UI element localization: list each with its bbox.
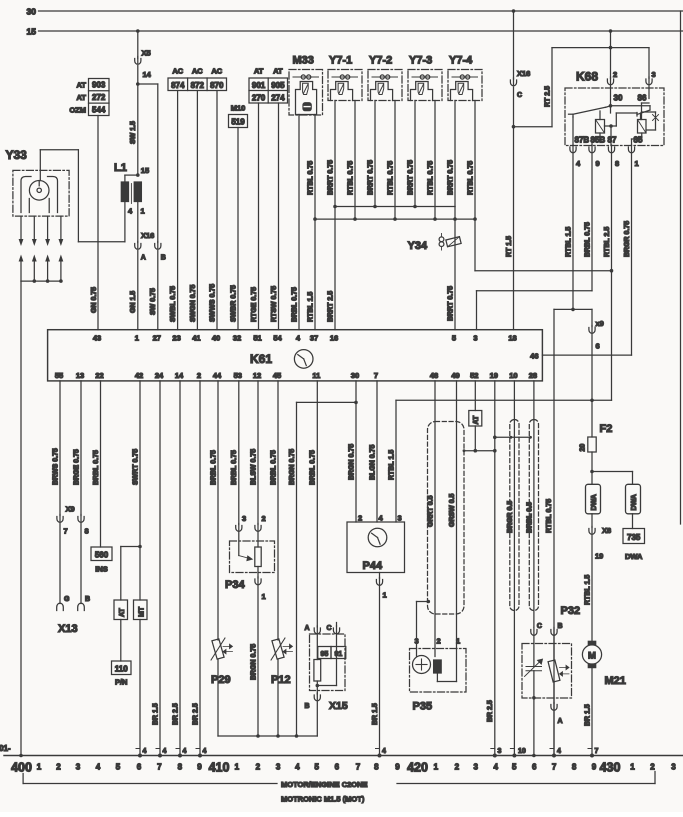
svg-text:45: 45 [273, 371, 281, 380]
svg-text:9: 9 [592, 763, 597, 772]
svg-text:MOTRONIC M1.5 (MOT): MOTRONIC M1.5 (MOT) [281, 795, 365, 804]
wire RTBL 0.75 to P32 B [546, 499, 553, 533]
svg-text:2: 2 [437, 637, 441, 646]
svg-text:11: 11 [312, 371, 320, 380]
wire X15-B to sensor ground bus [316, 702, 318, 737]
svg-text:P/N: P/N [115, 678, 128, 687]
coolant temp sensor P29 [210, 381, 232, 736]
svg-text:X5: X5 [142, 49, 151, 58]
svg-text:13: 13 [76, 371, 84, 380]
svg-text:5: 5 [452, 334, 456, 343]
svg-text:RT 1.5: RT 1.5 [506, 236, 513, 257]
code box AT on pin 52 [469, 381, 482, 426]
svg-text:C: C [517, 92, 522, 99]
svg-text:BLGN 0.75: BLGN 0.75 [369, 444, 376, 480]
svg-text:24: 24 [155, 371, 164, 380]
wire pin 23 SWBL 0.75 [170, 91, 178, 330]
svg-text:B: B [161, 255, 166, 262]
wire K68-1 BRGR 0.75 to pin 46 [542, 154, 631, 356]
svg-text:Y7-1: Y7-1 [329, 55, 352, 67]
svg-text:8: 8 [178, 763, 183, 772]
svg-text:1: 1 [630, 763, 635, 772]
svg-text:15: 15 [27, 27, 37, 37]
svg-text:20: 20 [580, 444, 587, 452]
svg-text:BRGR 0.75: BRGR 0.75 [624, 221, 631, 257]
relay K68 pin 1 [628, 145, 638, 168]
svg-text:BRGN 0.75: BRGN 0.75 [348, 444, 355, 480]
svg-text:48: 48 [430, 371, 438, 380]
svg-text:AC: AC [192, 67, 203, 76]
svg-text:1: 1 [135, 334, 139, 343]
svg-text:AT: AT [119, 607, 126, 617]
connector X9 pin 6 bracket [554, 309, 604, 755]
svg-text:4: 4 [163, 748, 167, 755]
svg-text:DWA: DWA [591, 494, 598, 510]
svg-text:BRBL 0.75: BRBL 0.75 [231, 450, 238, 485]
screened cable pin 10 [510, 420, 519, 611]
svg-text:BRGN 0.75: BRGN 0.75 [289, 449, 296, 485]
svg-text:22: 22 [95, 371, 103, 380]
connector-code box 903/272/544 (AT/AT/OZM) [69, 79, 109, 116]
svg-text:7: 7 [157, 763, 162, 772]
purge valve Y34 [408, 234, 462, 253]
svg-text:B: B [558, 623, 563, 630]
injector Y7-4 [448, 55, 482, 101]
svg-text:19: 19 [490, 371, 498, 380]
svg-text:RTBL 1.5: RTBL 1.5 [307, 292, 314, 322]
svg-text:RTBL 0.75: RTBL 0.75 [427, 161, 434, 195]
svg-text:1: 1 [383, 591, 387, 600]
svg-text:8: 8 [615, 159, 619, 168]
connector X16 pins A/B [141, 231, 166, 262]
svg-text:5: 5 [314, 763, 319, 772]
K61 bottom pin numbers [55, 371, 537, 380]
svg-text:3: 3 [671, 763, 676, 772]
svg-text:X9: X9 [66, 505, 75, 514]
svg-text:X16: X16 [517, 69, 530, 78]
svg-text:16: 16 [330, 334, 338, 343]
svg-text:A: A [304, 625, 309, 632]
octane plug X15 [304, 623, 347, 713]
wire RTBL 1.5 supply to P44-3 [388, 400, 611, 522]
svg-text:52: 52 [470, 371, 478, 380]
svg-text:AT: AT [77, 93, 87, 102]
wire Y7-3 RTBL 0.75 [427, 101, 436, 221]
svg-text:6: 6 [532, 763, 537, 772]
wire Y33 ground bus to rail [19, 281, 61, 757]
svg-text:A: A [558, 718, 563, 725]
relay K68 pin 8 [608, 145, 619, 168]
svg-text:3: 3 [276, 763, 281, 772]
wire pin 7 BLGN 0.75 to P44-4 [369, 381, 377, 522]
svg-text:18: 18 [508, 334, 516, 343]
svg-text:1: 1 [434, 763, 439, 772]
wire SW 1.5 X5 to L1 [130, 66, 139, 176]
svg-text:272: 272 [92, 93, 106, 102]
connector-code boxes AT 901/905 270/274 [249, 67, 288, 104]
svg-text:MOTOR/ENGINE C2ONE: MOTOR/ENGINE C2ONE [281, 780, 368, 789]
wire pin 5 BRRT 0.75 (through Y34) [447, 207, 455, 330]
wire MT to ground rail [136, 620, 147, 758]
wire pin 13 BRGE 0.75 via X9-8 to X13-B [73, 381, 84, 611]
wire pin 30 BRGN 0.75 to P44-2 [348, 381, 356, 522]
svg-text:85B: 85B [591, 136, 606, 145]
svg-text:2: 2 [262, 514, 266, 523]
svg-text:3: 3 [415, 637, 419, 646]
svg-text:37: 37 [310, 334, 318, 343]
K61 pin 46 [530, 352, 538, 361]
svg-text:AT: AT [254, 67, 264, 76]
wire pin 19 screen drain BR 2.5 to ground [487, 381, 501, 758]
svg-text:BRBL 0.75: BRBL 0.75 [310, 450, 317, 485]
svg-text:9: 9 [596, 159, 600, 168]
svg-text:41: 41 [192, 334, 200, 343]
svg-text:AT: AT [77, 81, 87, 90]
svg-text:54: 54 [273, 334, 282, 343]
svg-text:6: 6 [596, 342, 600, 351]
svg-text:GRSW 0.5: GRSW 0.5 [449, 493, 456, 527]
svg-text:270: 270 [252, 93, 266, 102]
svg-text:P35: P35 [413, 701, 433, 713]
svg-text:BRRT 0.75: BRRT 0.75 [407, 160, 414, 195]
svg-text:10: 10 [509, 371, 517, 380]
svg-text:14: 14 [143, 70, 152, 79]
svg-text:32: 32 [233, 334, 241, 343]
anti-theft unit DWA (right) [626, 484, 641, 514]
svg-text:519: 519 [231, 118, 245, 127]
svg-text:C: C [537, 623, 542, 630]
wire pin 16 BRRT 2.5 [327, 207, 335, 330]
wire pin 2 BR 2.5 to ground [192, 381, 206, 758]
svg-text:SW 0.75: SW 0.75 [150, 288, 157, 315]
svg-text:46: 46 [530, 352, 538, 361]
code box AT (automatic transmission) [114, 600, 128, 620]
svg-text:RTBL 0.75: RTBL 0.75 [387, 161, 394, 195]
svg-text:7: 7 [595, 748, 599, 755]
connector X16 pin C on terminal 30 feed [510, 9, 530, 99]
svg-text:C: C [326, 625, 331, 632]
svg-text:G: G [64, 596, 70, 603]
wire pin 11 BRBL 0.75 to X15-A [310, 381, 318, 627]
svg-text:X16: X16 [141, 231, 154, 240]
ground rail 31 [0, 744, 683, 756]
Y33 spark gap arrows [19, 216, 64, 283]
svg-text:K68: K68 [576, 70, 598, 84]
fuel pump M33 [289, 55, 323, 116]
svg-text:M21: M21 [605, 675, 626, 687]
svg-text:8: 8 [572, 763, 577, 772]
svg-text:BRBL 0.75: BRBL 0.75 [584, 222, 591, 257]
svg-text:872: 872 [191, 81, 205, 90]
svg-text:874: 874 [171, 81, 185, 90]
svg-text:OZM: OZM [69, 106, 86, 115]
svg-text:51: 51 [253, 334, 261, 343]
svg-text:19: 19 [595, 552, 603, 561]
wire P35 screen drain to pin 3 terminal [417, 600, 431, 649]
svg-text:BR 1.5: BR 1.5 [152, 703, 159, 725]
wire pin 3 from K68 pin 9 BRBL 0.75 [477, 291, 593, 330]
svg-text:6: 6 [137, 763, 142, 772]
svg-text:7: 7 [552, 763, 557, 772]
svg-text:Y7-3: Y7-3 [409, 55, 432, 67]
wire RT 1.5 to pin 18 [506, 87, 515, 330]
svg-text:4: 4 [295, 763, 300, 772]
instrument box 560 INS [91, 547, 112, 574]
svg-text:RTBL 1.5: RTBL 1.5 [584, 575, 591, 605]
svg-text:560: 560 [95, 551, 109, 560]
svg-text:RTBL 1.5: RTBL 1.5 [565, 227, 572, 257]
svg-text:12: 12 [253, 371, 261, 380]
wire K68 supply bracket from terminal 15 [552, 29, 649, 49]
svg-text:901: 901 [252, 81, 266, 90]
svg-text:RTSW 0.75: RTSW 0.75 [271, 286, 278, 322]
svg-text:P32: P32 [561, 605, 581, 617]
svg-text:4: 4 [96, 763, 101, 772]
svg-text:BRBL 0.75: BRBL 0.75 [93, 450, 100, 485]
svg-text:K61: K61 [250, 352, 272, 366]
throttle potentiometer P34 [225, 532, 275, 601]
svg-text:A: A [141, 255, 146, 262]
wire pin 43 GN 0.75 [91, 116, 98, 330]
wire pin 24 BR 1.5 to ground [152, 381, 166, 758]
svg-text:BRGR 0.5: BRGR 0.5 [507, 501, 514, 533]
svg-text:410: 410 [209, 761, 230, 775]
svg-text:3: 3 [498, 748, 502, 755]
wire Y7-1 RTBL 0.75 [347, 101, 356, 221]
node terminal-15 bus [27, 27, 683, 37]
wire fuse to DWA units [590, 452, 632, 484]
wire Y7-2 BRRT 0.75 [367, 101, 376, 209]
svg-text:BR 2.5: BR 2.5 [172, 703, 179, 725]
wire HT lead coil L1 terminal 4 to Y33 [40, 150, 125, 242]
svg-text:SWGN 0.75: SWGN 0.75 [190, 285, 197, 322]
svg-text:55: 55 [55, 371, 63, 380]
relay K68 [565, 70, 664, 146]
svg-text:4: 4 [183, 748, 187, 755]
svg-text:40: 40 [212, 334, 220, 343]
wire P32 cap to ground [532, 698, 536, 758]
svg-text:3: 3 [398, 514, 402, 523]
wire pin 14 BR 2.5 to ground [172, 381, 186, 758]
svg-text:BR 1.5: BR 1.5 [372, 703, 379, 725]
svg-text:INS: INS [95, 565, 108, 574]
svg-text:AT: AT [473, 415, 480, 425]
svg-text:2: 2 [650, 763, 655, 772]
anti-theft unit DWA (left) [586, 484, 601, 514]
wire pin 51 RTGE 0.75 [251, 103, 259, 330]
air temp sensor P12 [270, 381, 292, 738]
svg-text:BRBL 0.5: BRBL 0.5 [526, 502, 533, 533]
svg-text:3: 3 [76, 763, 81, 772]
connector-code boxes AC 874/872/870 [168, 67, 227, 91]
connector X9 pins 7/8 labels [64, 505, 89, 536]
svg-text:P29: P29 [211, 674, 231, 686]
fuse F2 20A [580, 400, 613, 452]
wire RT 2.5 relay feed [514, 48, 553, 127]
svg-text:SWWS 0.75: SWWS 0.75 [209, 284, 216, 322]
park/neutral switch 110 P/N [112, 661, 132, 687]
ECU K61 [48, 330, 543, 381]
svg-text:9: 9 [395, 763, 400, 772]
svg-text:87B: 87B [575, 136, 590, 145]
svg-text:GN 0.75: GN 0.75 [91, 287, 98, 313]
svg-text:87: 87 [608, 136, 617, 145]
svg-text:BR 1.5: BR 1.5 [584, 704, 591, 726]
svg-text:P44: P44 [363, 560, 383, 572]
svg-text:RTBL 2.5: RTBL 2.5 [604, 227, 611, 257]
svg-text:AC: AC [211, 67, 222, 76]
svg-text:2: 2 [455, 763, 460, 772]
svg-text:Y7-4: Y7-4 [449, 55, 473, 67]
svg-text:BR 2.5: BR 2.5 [192, 703, 199, 725]
wire AT to 110 P/N switch [120, 620, 122, 662]
wire pin 37 RTBL 1.5 [307, 219, 315, 330]
wire pin 22 BRBL 0.75 to 560 INS [93, 381, 101, 547]
svg-text:F2: F2 [600, 423, 613, 435]
svg-text:42: 42 [135, 371, 143, 380]
wire P32-A to ground [550, 711, 561, 758]
screened cable pin 28 [529, 420, 538, 611]
svg-text:RTBL 0.75: RTBL 0.75 [347, 161, 354, 195]
wire pin 4 BRBL 0.75 (M33) [291, 115, 299, 330]
wire pin 1 GN 1.5 (L1 term 1 via X16-A) [130, 202, 141, 330]
svg-text:4: 4 [143, 748, 147, 755]
wire Y7-2 RTBL 0.75 [387, 101, 396, 221]
wire pin 10 BRGR 0.5 to ground [507, 381, 526, 758]
svg-text:Y34: Y34 [408, 240, 428, 252]
wire pin 49 GRSW 0.5 [449, 381, 457, 649]
wire pin 55 BRWS 0.75 via X9-7 to X13-G [52, 381, 63, 611]
svg-text:1: 1 [262, 592, 266, 601]
svg-text:274: 274 [271, 93, 285, 102]
wire right page border [680, 11, 682, 524]
wire pin 53 BRBL 0.75 to P34 pin 3 [231, 381, 246, 531]
svg-text:10: 10 [518, 748, 526, 755]
svg-text:1: 1 [635, 159, 639, 168]
svg-text:M10: M10 [231, 104, 246, 113]
svg-text:BRRT 0.75: BRRT 0.75 [447, 160, 454, 195]
wire injector supply RTBL rail [313, 217, 477, 221]
svg-text:43: 43 [93, 334, 101, 343]
svg-text:400: 400 [11, 761, 32, 775]
svg-text:420: 420 [407, 761, 428, 775]
svg-text:4: 4 [382, 748, 386, 755]
svg-text:BRBL 0.75: BRBL 0.75 [291, 287, 298, 322]
svg-text:4: 4 [493, 763, 498, 772]
svg-text:AC: AC [172, 67, 183, 76]
wire Y7-3 BRRT 0.75 [407, 101, 416, 209]
svg-text:AT: AT [273, 67, 283, 76]
svg-text:2: 2 [197, 371, 201, 380]
svg-text:BRBL 0.75: BRBL 0.75 [210, 450, 217, 485]
svg-text:RTBL 0.75: RTBL 0.75 [467, 161, 474, 195]
svg-text:SW 1.5: SW 1.5 [130, 121, 137, 144]
svg-text:SWBL 0.75: SWBL 0.75 [170, 286, 177, 322]
svg-text:14: 14 [175, 371, 184, 380]
svg-text:BRBL 0.75: BRBL 0.75 [270, 450, 277, 485]
svg-text:3: 3 [473, 334, 477, 343]
svg-text:5: 5 [512, 763, 517, 772]
svg-text:B: B [85, 596, 90, 603]
svg-text:7: 7 [374, 371, 378, 380]
svg-text:110: 110 [115, 665, 128, 674]
svg-text:GN 1.5: GN 1.5 [130, 291, 137, 313]
svg-text:2: 2 [256, 763, 261, 772]
wire pin 52 screen ground [463, 426, 497, 453]
svg-text:4: 4 [557, 748, 561, 755]
svg-text:SWRT 0.75: SWRT 0.75 [132, 449, 139, 485]
wire pin 27 SW 0.75 (via X16-B) [138, 84, 161, 330]
track section labels [11, 761, 676, 775]
wire K68-9 BRBL 0.75 [584, 154, 592, 291]
svg-text:RTBL 1.5: RTBL 1.5 [388, 450, 395, 480]
svg-text:30: 30 [351, 371, 359, 380]
connector X13 [58, 596, 90, 635]
wire RTBL rail feed from K68 pin 8 [475, 219, 613, 272]
svg-text:4: 4 [203, 748, 207, 755]
svg-text:BRRT 2.5: BRRT 2.5 [327, 291, 334, 322]
svg-text:8: 8 [85, 527, 89, 536]
wire pin 40 SWWS 0.75 [209, 91, 217, 330]
svg-text:8: 8 [374, 763, 379, 772]
svg-text:01-: 01- [0, 744, 11, 753]
relay K68 contacts and coils [569, 103, 659, 146]
svg-text:BLSW 0.75: BLSW 0.75 [250, 449, 257, 485]
wire P34-1 BRGN 0.75 to sensor ground bus [250, 586, 259, 738]
svg-text:430: 430 [600, 761, 621, 775]
svg-text:53: 53 [234, 371, 242, 380]
svg-text:49: 49 [451, 371, 459, 380]
wire sensor ground bus [218, 735, 317, 737]
svg-text:X13: X13 [58, 623, 78, 635]
svg-text:M: M [588, 651, 596, 662]
svg-text:9: 9 [197, 763, 202, 772]
wire M21 BR 1.5 to ground [584, 668, 598, 758]
svg-text:DWA: DWA [631, 494, 638, 510]
function bracket MOTOR/ENGINE [23, 772, 655, 804]
svg-text:2: 2 [56, 763, 61, 772]
wire screen taps to pin 19 [493, 436, 532, 440]
svg-text:L1: L1 [114, 162, 127, 174]
svg-text:3: 3 [242, 514, 246, 523]
aerial motor M21 [582, 641, 626, 687]
wire pin 12 BLSW 0.75 to P34 pin 2 [250, 381, 265, 531]
screened cable for P35 (GRRT/GRSW) [428, 422, 465, 615]
wire pin 28 BRBL 0.5 to P32-C [526, 381, 534, 627]
svg-text:870: 870 [210, 81, 224, 90]
svg-text:GRRT 0.5: GRRT 0.5 [427, 495, 434, 527]
svg-text:903: 903 [92, 81, 106, 90]
svg-text:27: 27 [153, 334, 161, 343]
svg-text:B: B [304, 703, 309, 710]
svg-text:BRRT 0.75: BRRT 0.75 [327, 160, 334, 195]
wire K68-4 RTBL 1.5 [565, 154, 574, 312]
control unit 735 DWA [623, 514, 645, 561]
code box MT (manual transmission) [134, 547, 148, 620]
svg-text:x9: x9 [596, 319, 604, 328]
svg-text:BRWS 0.75: BRWS 0.75 [52, 448, 59, 485]
svg-text:30: 30 [27, 7, 37, 17]
svg-text:BRGN 0.75: BRGN 0.75 [250, 644, 257, 680]
svg-text:X6: X6 [602, 526, 611, 535]
distributor Y33 [6, 148, 70, 216]
wire M33 RTBL 0.75 to supply rail [307, 115, 315, 220]
svg-text:1: 1 [37, 763, 42, 772]
wire pin 41 SWGN 0.75 [190, 91, 198, 330]
wire branch to AT switch box [121, 547, 140, 601]
svg-text:BRGE 0.75: BRGE 0.75 [73, 449, 80, 485]
relay K68 pin 3 [646, 48, 656, 99]
